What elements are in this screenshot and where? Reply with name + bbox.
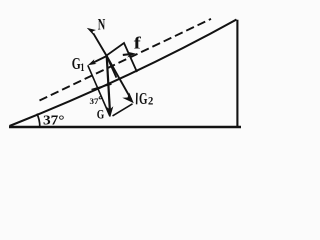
parallelogram construction edge from G1 tip to G tip [88,65,110,116]
friction force f arrow [123,53,133,56]
svg-text:N: N [98,16,106,33]
block (parallelogram) on incline [107,43,138,78]
svg-text:G: G [139,89,148,108]
svg-text:f: f [134,33,141,52]
svg-text:37°: 37° [43,114,65,129]
gravity G arrow (vertical) [107,56,110,113]
svg-text:G: G [97,107,105,121]
svg-text:2: 2 [148,96,154,108]
svg-text:37: 37 [90,97,99,106]
dashed line parallel to incline [40,19,212,101]
incline right vertical edge [236,20,238,127]
G2 arrowhead upper barb tick [136,93,138,105]
base angle arc [37,114,40,127]
incline hypotenuse [10,20,237,127]
normal force N arrow [93,33,107,56]
gravity component G2 arrow (perpendicular) [107,56,131,99]
small angle arc near G tip [92,84,112,89]
gravity component G1 arrow (down-slope) [91,56,106,64]
parallelogram construction edge from G2 tip to G tip [113,104,133,116]
svg-text:1: 1 [80,62,84,74]
incline base line [9,126,241,129]
